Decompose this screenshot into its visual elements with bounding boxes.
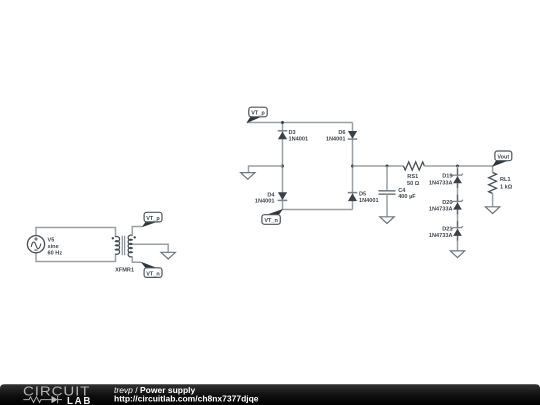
wire C4 to ground xyxy=(386,194,388,216)
D4 labels xyxy=(255,192,275,204)
footer bar xyxy=(0,384,540,405)
svg-text:1N4001: 1N4001 xyxy=(359,198,379,204)
primary phase dot xyxy=(112,237,114,239)
wire loop top xyxy=(36,228,116,238)
wire bridge bottom rail xyxy=(283,209,353,211)
svg-text:1N4001: 1N4001 xyxy=(326,137,346,143)
transformer core xyxy=(122,236,124,256)
D5 labels xyxy=(359,192,379,204)
D20 labels xyxy=(429,200,453,213)
svg-text:D19: D19 xyxy=(442,174,452,180)
svg-text:D3: D3 xyxy=(289,130,296,136)
RS1 labels xyxy=(407,174,420,187)
V5 value labels xyxy=(48,238,63,257)
svg-text:VT_n: VT_n xyxy=(146,271,160,277)
wire loop bottom xyxy=(36,253,116,262)
D6 labels xyxy=(326,130,346,143)
flag VT_n (transformer) xyxy=(141,262,163,278)
svg-text:VT_p: VT_p xyxy=(146,216,160,222)
svg-text:V5: V5 xyxy=(48,238,55,244)
svg-text:1N4001: 1N4001 xyxy=(289,137,309,143)
svg-text:1N4001: 1N4001 xyxy=(255,199,275,205)
svg-text:XFMR1: XFMR1 xyxy=(115,267,134,273)
wire secondary center tap xyxy=(132,244,168,252)
svg-text:1 kΩ: 1 kΩ xyxy=(500,185,513,191)
wire secondary top xyxy=(132,227,142,236)
svg-text:Vout: Vout xyxy=(497,155,509,161)
node junction zeners xyxy=(456,165,459,168)
resistor RL1 xyxy=(489,173,497,194)
node junction top-left xyxy=(281,121,284,124)
logo zigzag + diode xyxy=(23,396,62,403)
svg-text:D21: D21 xyxy=(442,226,452,232)
node junction mid-left (ground) xyxy=(281,165,284,168)
svg-text:VT_p: VT_p xyxy=(251,111,265,117)
svg-text:RS1: RS1 xyxy=(407,174,418,180)
svg-text:RL1: RL1 xyxy=(500,177,511,183)
wire bridge right vertical xyxy=(352,123,354,210)
D21 labels xyxy=(429,226,453,239)
ground (C4) xyxy=(380,217,394,224)
C4 labels xyxy=(398,188,416,200)
wire mid rail to RS1 xyxy=(353,165,404,167)
svg-text:D4: D4 xyxy=(267,192,275,198)
node junction mid-right xyxy=(351,165,354,168)
diode D5 xyxy=(348,193,358,202)
logo diode triangle xyxy=(52,396,58,403)
svg-text:D20: D20 xyxy=(442,200,452,206)
flag VT_p (transformer) xyxy=(142,212,162,227)
svg-text:D6: D6 xyxy=(338,130,345,136)
capacitor C4 xyxy=(379,191,396,194)
wire zener chain xyxy=(457,166,459,250)
D19 labels xyxy=(429,174,453,187)
svg-text:sine: sine xyxy=(48,244,59,250)
resistor RS1 xyxy=(404,162,425,170)
wire bridge top rail xyxy=(247,122,353,124)
secondary winding xyxy=(128,235,132,257)
svg-text:1N4733A: 1N4733A xyxy=(429,180,453,186)
svg-text:1N4733A: 1N4733A xyxy=(429,207,453,213)
RL1 labels xyxy=(500,177,513,190)
wire C4 branch xyxy=(386,166,388,190)
svg-text:VT_n: VT_n xyxy=(264,218,278,224)
D3 labels xyxy=(289,130,309,143)
svg-text:400 µF: 400 µF xyxy=(398,194,416,200)
svg-text:50 Ω: 50 Ω xyxy=(407,181,420,187)
secondary phase dot xyxy=(134,236,136,238)
zener D21 xyxy=(452,221,463,241)
primary winding xyxy=(115,236,119,254)
flag Vout xyxy=(492,151,512,167)
voltage source V5 xyxy=(27,236,44,253)
svg-text:60 Hz: 60 Hz xyxy=(48,251,63,257)
ground (zener chain) xyxy=(450,251,464,258)
flag VT_p (bridge) xyxy=(246,107,267,123)
node junction C4 xyxy=(386,165,389,168)
wire RL1 to ground xyxy=(492,193,494,206)
diode D3 xyxy=(278,131,288,140)
ground (transformer tap) xyxy=(161,252,175,259)
diode D6 xyxy=(348,131,358,139)
flag VT_n (bridge) xyxy=(262,209,283,224)
svg-text:LAB: LAB xyxy=(67,396,92,405)
svg-text:http://circuitlab.com/ch8nx737: http://circuitlab.com/ch8nx7377djqe xyxy=(114,394,259,404)
zener D19 xyxy=(452,169,463,189)
svg-text:1N4733A: 1N4733A xyxy=(429,233,453,239)
wire bridge left vertical xyxy=(282,123,284,210)
diode D4 xyxy=(278,192,288,200)
wire to left ground xyxy=(249,166,283,172)
wire secondary bottom xyxy=(132,256,141,262)
ground (bridge left) xyxy=(241,173,255,180)
svg-text:D5: D5 xyxy=(359,192,366,198)
ground (RL1) xyxy=(485,207,499,214)
zener D20 xyxy=(452,195,463,215)
wire RS1 to Vout corner xyxy=(424,166,492,173)
